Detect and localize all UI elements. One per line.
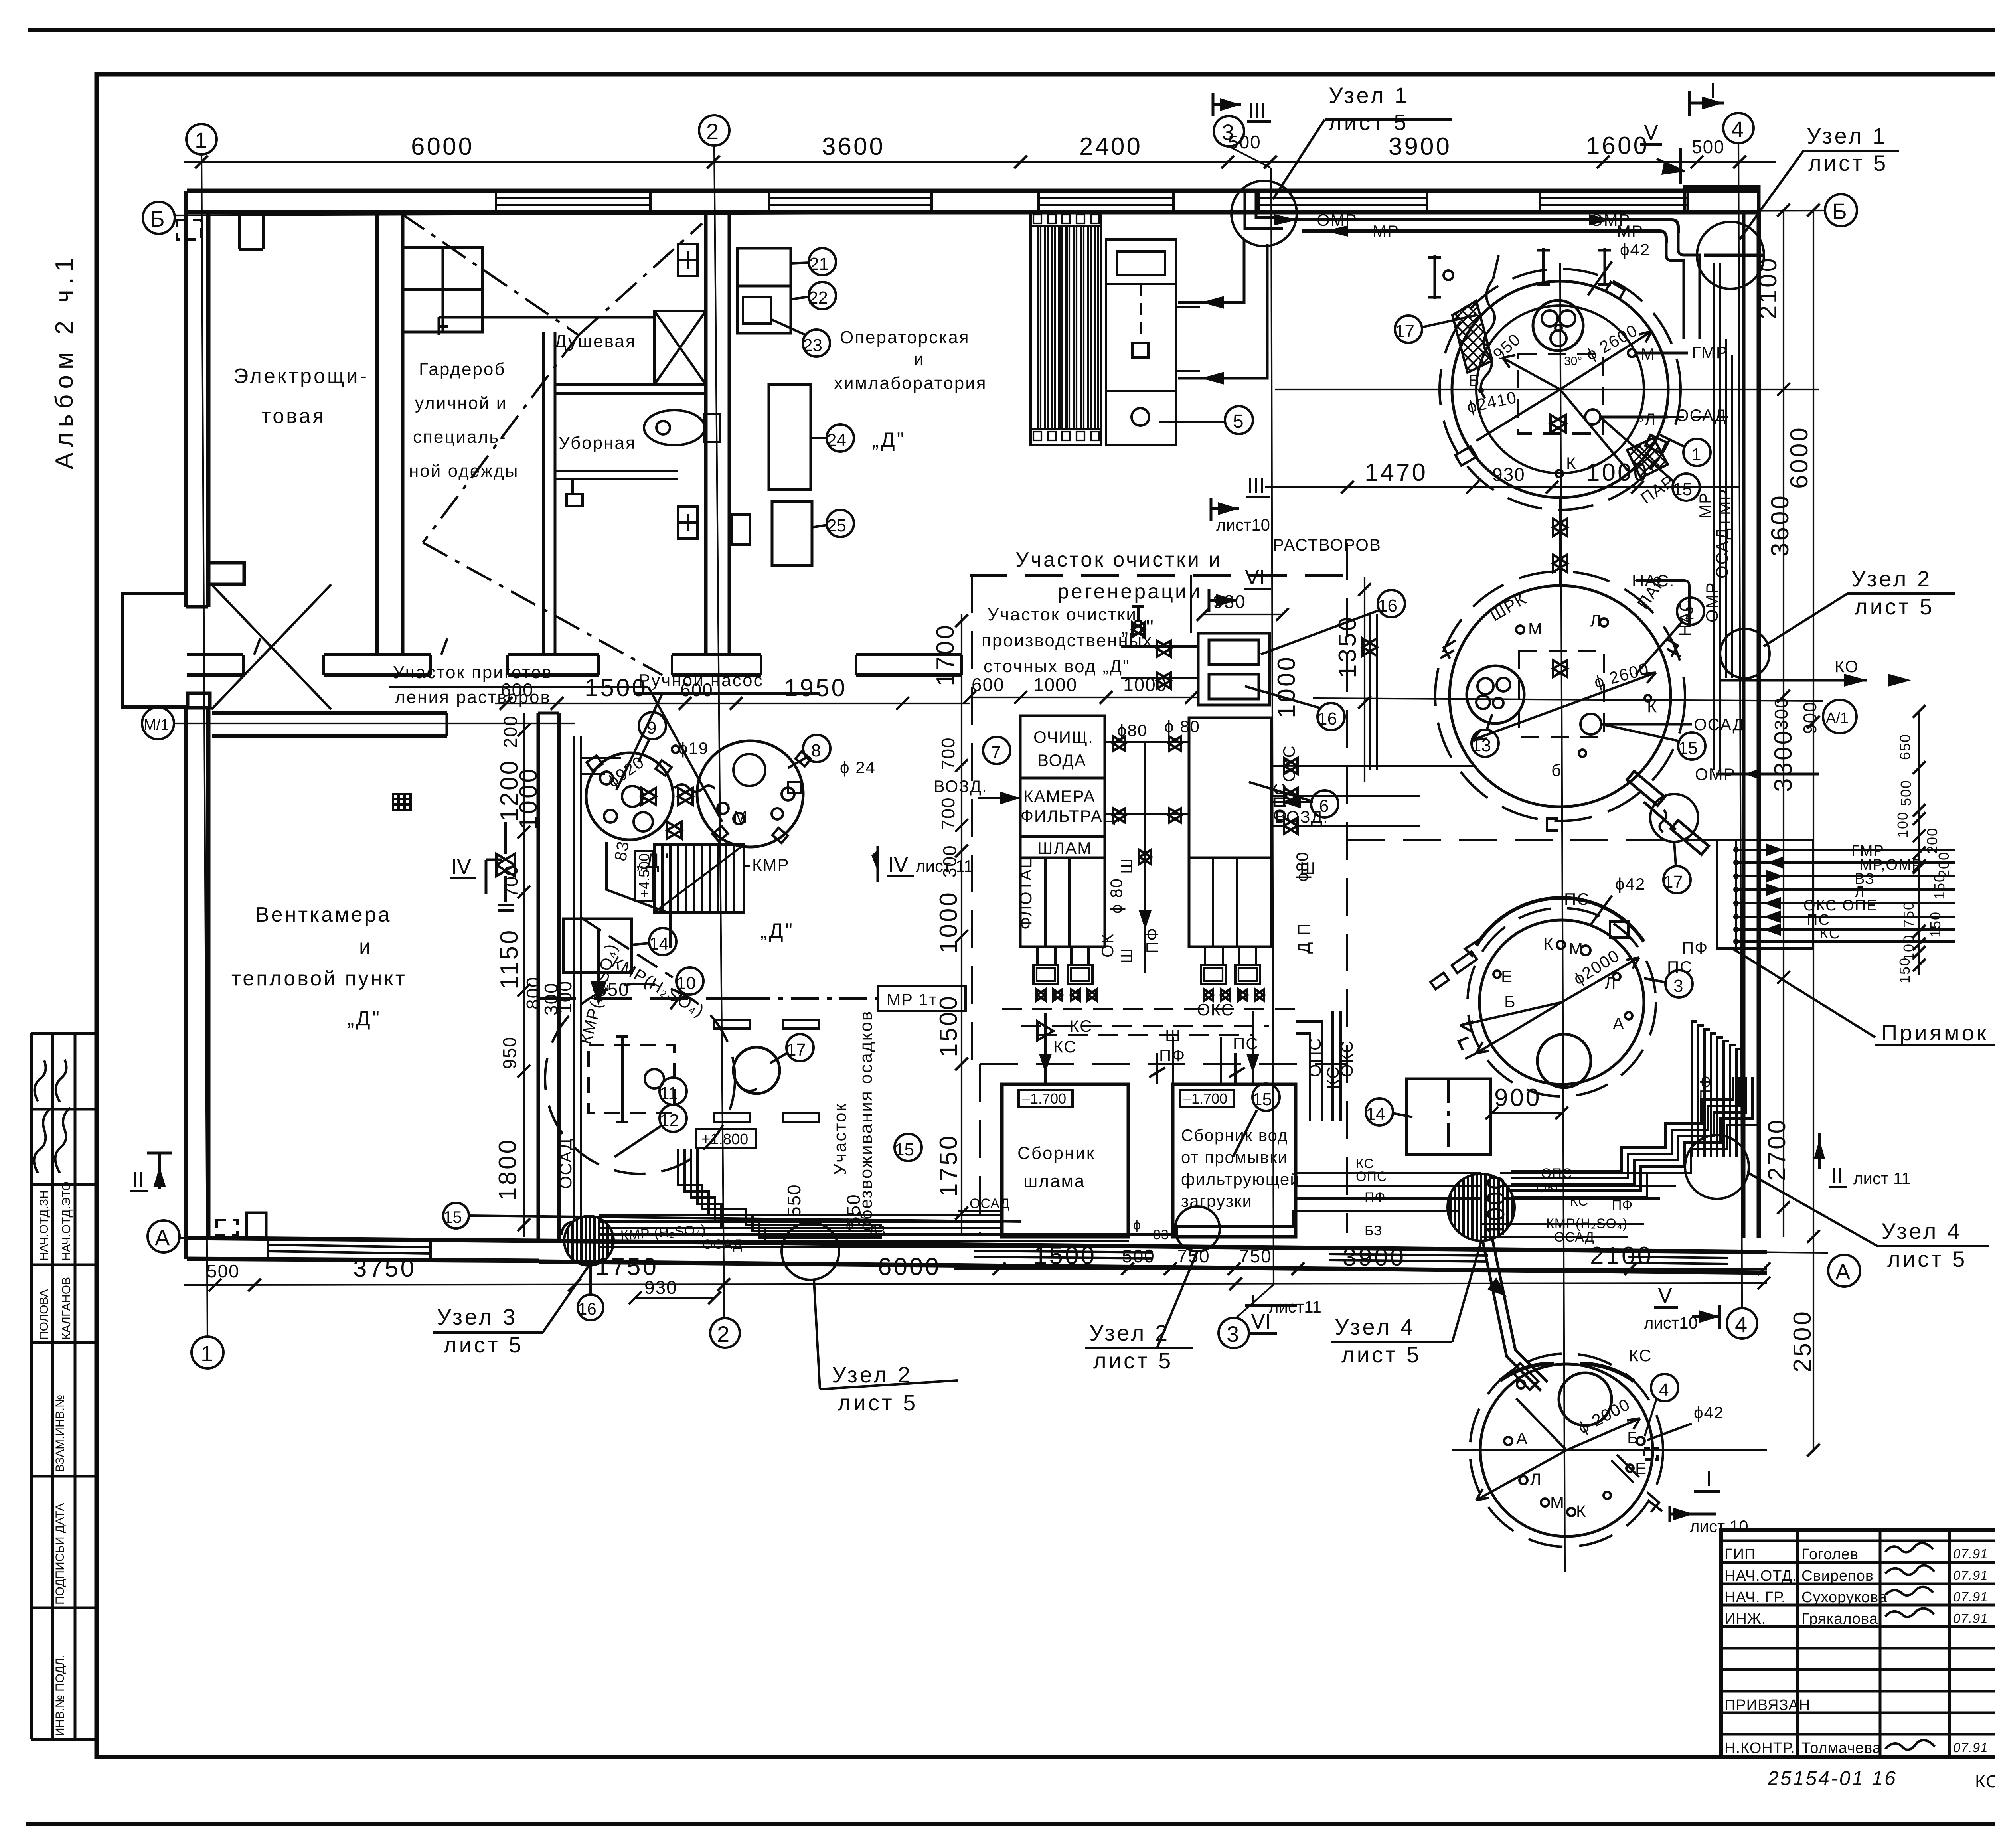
- svg-text:600: 600: [972, 674, 1005, 695]
- grid circle 2 top: [699, 115, 729, 146]
- svg-text:ϕ 24: ϕ 24: [840, 758, 876, 777]
- stamp outline: [1721, 1530, 1995, 1757]
- TITLE-BLOCK: [1721, 1530, 1995, 1812]
- stairs: [654, 845, 744, 912]
- svg-text:650: 650: [1897, 734, 1913, 760]
- pit manifold lines: [1733, 843, 1955, 944]
- right wall pipe bundle vertical: [1714, 263, 1732, 770]
- svg-text:I: I: [1710, 79, 1716, 103]
- svg-text:ϕ 2000: ϕ 2000: [1575, 1394, 1633, 1437]
- svg-text:900: 900: [1494, 1084, 1541, 1112]
- grid circle 1 top: [186, 124, 217, 154]
- svg-text:тепловой пункт: тепловой пункт: [231, 967, 407, 990]
- svg-text:15: 15: [895, 1140, 914, 1159]
- callout 3 t3: [1665, 970, 1693, 997]
- tank 2 nozzles lower right: [1627, 771, 1709, 855]
- svg-text:Ш: Ш: [1117, 858, 1136, 874]
- axis B horizontal: [175, 211, 1825, 215]
- sink top: [678, 244, 697, 276]
- uzel2 right circle: [1720, 629, 1770, 678]
- EQUIPMENT: [545, 211, 1995, 1547]
- svg-text:3300: 3300: [1770, 729, 1797, 792]
- svg-text:„Д": „Д": [760, 919, 794, 942]
- west wall stub above M1: [188, 693, 210, 708]
- svg-text:Л: Л: [1605, 973, 1617, 992]
- dushevaya north partition: [439, 316, 654, 319]
- svg-text:–1.700: –1.700: [1022, 1090, 1066, 1107]
- outer top cut line: [28, 28, 1995, 32]
- svg-text:ПФ: ПФ: [1143, 927, 1161, 954]
- uzel1 right circle: [1697, 222, 1764, 289]
- svg-text:НАЧ. ГР.: НАЧ. ГР.: [1724, 1589, 1786, 1606]
- tank 1 valve: [1551, 415, 1566, 432]
- tank1-tank2 pipe with valves: [1553, 497, 1567, 586]
- svg-text:сточных вод „Д": сточных вод „Д": [984, 657, 1130, 676]
- wavy link pumps: [674, 784, 715, 792]
- svg-text:Ш: Ш: [1117, 948, 1136, 964]
- svg-text:БЗ: БЗ: [1365, 1223, 1382, 1238]
- svg-text:ϕ42: ϕ42: [1615, 875, 1645, 893]
- svg-text:ГМР: ГМР: [1715, 488, 1734, 525]
- svg-text:1150: 1150: [496, 928, 523, 989]
- svg-text:930: 930: [644, 1277, 678, 1298]
- svg-text:лист 5: лист 5: [1855, 594, 1934, 619]
- svg-text:лист 5: лист 5: [1808, 150, 1888, 176]
- svg-text:К: К: [1576, 1502, 1586, 1520]
- svg-text:1: 1: [195, 128, 207, 153]
- svg-text:ϕ 80: ϕ 80: [1164, 717, 1200, 736]
- svg-text:А: А: [1613, 1014, 1625, 1033]
- pipes drop into right wall corner: [1678, 233, 1700, 339]
- svg-text:НАЧ.ОТД.: НАЧ.ОТД.: [1724, 1568, 1797, 1584]
- left vertical pipes: [562, 736, 581, 1235]
- signature scribbles rotated: [34, 1109, 50, 1173]
- bottom dimension row A: [954, 1268, 1767, 1270]
- staircase bundle right big: [1511, 1077, 1759, 1197]
- cabinet 25: [772, 501, 812, 565]
- west exterior wall upper: [184, 191, 188, 607]
- svg-text:лист 5: лист 5: [1341, 1342, 1421, 1367]
- svg-text:83: 83: [611, 839, 633, 862]
- callout 11: [660, 1078, 687, 1105]
- north-east corner pier: [1685, 187, 1759, 212]
- svg-text:ПФ: ПФ: [1612, 1198, 1633, 1213]
- sbornik shlama box: [1002, 1084, 1128, 1237]
- sbornik inlet pipes: [1037, 1011, 1259, 1084]
- svg-text:лист 11: лист 11: [1853, 1169, 1910, 1188]
- tank 2 valve: [1553, 660, 1567, 677]
- svg-text:Б: Б: [150, 206, 165, 231]
- unit 5 ion battery: [1031, 211, 1101, 445]
- svg-text:100: 100: [1900, 934, 1917, 961]
- svg-text:4: 4: [1735, 1312, 1747, 1337]
- svg-text:Б: Б: [1832, 199, 1847, 224]
- unit6 under pumps: [1201, 947, 1260, 984]
- callout 7: [983, 737, 1010, 764]
- svg-text:300: 300: [1771, 697, 1792, 730]
- grid circle B left: [143, 202, 175, 234]
- svg-text:регенерации: регенерации: [1057, 580, 1202, 603]
- svg-text:6000: 6000: [1786, 426, 1813, 489]
- SIDE-TABLE: [31, 1033, 97, 1739]
- svg-text:ОКС: ОКС: [1197, 1000, 1234, 1019]
- svg-text:ϕ19: ϕ19: [678, 739, 709, 758]
- uzel3 circle at wall: [564, 1216, 614, 1266]
- svg-text:и: и: [359, 935, 373, 958]
- pipes sbornik right L-bundle: [1296, 1011, 1341, 1121]
- interior wall 2 (garderob/ubornaya): [542, 332, 545, 655]
- interior wall 3 (ubornaya/operatorskaya): [704, 212, 708, 655]
- axis-1 wall pier stubs top: [177, 212, 263, 249]
- tank 1 body: [1440, 269, 1681, 510]
- svg-text:„Д": „Д": [347, 1007, 381, 1030]
- grid circle B right: [1825, 194, 1857, 226]
- PIPING: [496, 83, 1955, 1391]
- hall west wall: [537, 713, 540, 1241]
- svg-text:ОПС: ОПС: [1306, 1038, 1324, 1077]
- rastvorov feed pipes: [1121, 575, 1198, 689]
- svg-text:500: 500: [1122, 1246, 1155, 1266]
- callout 16 mid: [1317, 703, 1345, 730]
- svg-text:ПОДПИСЬИ ДАТА: ПОДПИСЬИ ДАТА: [53, 1503, 67, 1605]
- tank 2 dashed pit: [1519, 651, 1604, 737]
- svg-text:Гоголев: Гоголев: [1801, 1546, 1859, 1563]
- north exterior wall inner line: [187, 210, 1759, 215]
- svg-text:ГМР: ГМР: [1692, 343, 1728, 362]
- svg-text:30°: 30°: [1564, 355, 1582, 368]
- tank 4 diag line: [1516, 1398, 1566, 1450]
- dushevaya/ubornaya divider: [555, 383, 706, 386]
- svg-text:А: А: [155, 1225, 170, 1250]
- svg-text:Узел 3: Узел 3: [437, 1304, 518, 1329]
- svg-text:3600: 3600: [1766, 494, 1794, 557]
- dashed collector lines under units: [1002, 1009, 1296, 1035]
- svg-text:2: 2: [717, 1321, 729, 1347]
- svg-text:IV: IV: [451, 855, 471, 879]
- svg-text:4: 4: [1659, 1380, 1669, 1400]
- svg-text:25: 25: [827, 516, 846, 535]
- staff names: [1724, 1546, 1988, 1757]
- axis 4 vertical: [1738, 143, 1742, 1309]
- svg-text:Участок приготов-: Участок приготов-: [393, 663, 560, 682]
- svg-text:150: 150: [1927, 911, 1944, 938]
- svg-text:4: 4: [1731, 116, 1744, 142]
- mid dim row 1470-930-1000: [1265, 486, 1740, 488]
- tanks center vertical: [1560, 263, 1565, 1572]
- section V top: [1640, 120, 1685, 184]
- bottom long pipe runs: [598, 1173, 1692, 1247]
- unit7 under pumps: [1033, 947, 1092, 984]
- svg-text:Душевая: Душевая: [555, 332, 636, 351]
- WALLS: [122, 187, 1767, 1273]
- svg-text:А: А: [1516, 1429, 1528, 1448]
- svg-text:83: 83: [1153, 1227, 1169, 1242]
- callout 2 t2: [1677, 598, 1704, 625]
- svg-text:ФИЛЬТРАЦ.: ФИЛЬТРАЦ.: [1021, 807, 1122, 825]
- svg-text:24: 24: [827, 430, 846, 450]
- svg-text:шлама: шлама: [1023, 1171, 1085, 1191]
- callout 24: [827, 424, 854, 452]
- svg-text:1: 1: [201, 1341, 213, 1366]
- sbornik vod box: [1173, 1084, 1296, 1237]
- svg-text:ϕ: ϕ: [1133, 1218, 1141, 1233]
- south door stub near axis A: [247, 1213, 266, 1238]
- manifold small valves under units: [1037, 989, 1264, 1001]
- callout 13: [1472, 730, 1499, 757]
- svg-text:ϕ80: ϕ80: [1117, 721, 1148, 740]
- section III top: [1213, 93, 1271, 122]
- vertical bundle with hooks: [1692, 1021, 1742, 1157]
- svg-text:Толмачева: Толмачева: [1801, 1740, 1881, 1757]
- svg-text:Д: Д: [1294, 942, 1313, 954]
- callout 25: [827, 510, 854, 537]
- tank 2 diameter arrow: [1472, 673, 1656, 740]
- callout 5: [1225, 406, 1253, 434]
- callout 15 left wall: [443, 1203, 469, 1228]
- svg-text:МР: МР: [1617, 222, 1643, 241]
- svg-text:М: М: [1528, 619, 1543, 638]
- svg-text:лист 5: лист 5: [1329, 110, 1408, 135]
- svg-text:Ш: Ш: [1300, 859, 1316, 877]
- svg-text:V: V: [1658, 1283, 1672, 1307]
- svg-text:6000: 6000: [411, 133, 474, 160]
- tank 14 box right: [1406, 1079, 1491, 1155]
- grid circle M1 left: [142, 707, 174, 739]
- axis M1 horizontal: [174, 723, 575, 724]
- svg-text:„Д": „Д": [872, 428, 906, 452]
- svg-text:ИНВ.№ ПОДЛ.: ИНВ.№ ПОДЛ.: [53, 1655, 67, 1736]
- tank 3 arrows: [1460, 958, 1639, 1053]
- KMP line from left: [581, 918, 673, 977]
- KO arrow right: [1720, 679, 1867, 682]
- svg-text:930: 930: [1492, 464, 1525, 485]
- unit 5 leader: [1159, 421, 1225, 423]
- svg-text:А/1: А/1: [1826, 710, 1849, 727]
- svg-text:16: 16: [578, 1299, 597, 1318]
- callout 17 top: [1395, 316, 1422, 343]
- axis T tank row horizontal: [1275, 389, 1819, 390]
- svg-text:900: 900: [1799, 701, 1820, 734]
- section VI bottom: [1245, 1295, 1321, 1333]
- callout 9: [639, 712, 666, 739]
- south exterior wall left segment: [187, 1238, 539, 1241]
- svg-text:химлаборатория: химлаборатория: [834, 373, 987, 393]
- cabinet 24: [769, 385, 811, 490]
- unit 7 flotation: [1020, 716, 1105, 947]
- svg-text:Л: Л: [1530, 1470, 1542, 1489]
- callout 4 tank4: [1651, 1374, 1678, 1401]
- svg-text:ФЛОТАЦ: ФЛОТАЦ: [1016, 855, 1035, 930]
- pit manifold box: [1717, 840, 1813, 948]
- floor drain ventkamera: [393, 794, 411, 810]
- tank 1 hatch patch lower: [1627, 438, 1668, 478]
- svg-text:ОМР: ОМР: [1703, 582, 1721, 622]
- pump 9 circle: [586, 753, 673, 840]
- svg-text:КАМЕРА: КАМЕРА: [1023, 787, 1096, 806]
- svg-text:ОК: ОК: [1098, 933, 1117, 958]
- svg-text:ОПС: ОПС: [1356, 1169, 1387, 1184]
- svg-text:Сухорукова: Сухорукова: [1801, 1589, 1887, 1606]
- svg-text:2: 2: [1685, 604, 1694, 623]
- tank 2 body: [1435, 571, 1685, 821]
- svg-text:К: К: [1566, 454, 1576, 472]
- grid circle 4 bottom: [1727, 1308, 1757, 1339]
- left internal dim chain: [523, 713, 525, 1237]
- svg-text:8: 8: [811, 741, 821, 760]
- svg-text:150: 150: [1896, 957, 1913, 983]
- svg-text:9: 9: [647, 718, 656, 738]
- tank 1 rim flanges: [1455, 282, 1666, 466]
- svg-text:1750: 1750: [935, 1134, 962, 1197]
- section VI left: [1209, 565, 1271, 612]
- callout 22: [809, 282, 836, 309]
- svg-text:ϕ 2600: ϕ 2600: [1592, 659, 1651, 692]
- ROOMS: [231, 244, 1381, 1231]
- svg-text:ОКС: ОКС: [1337, 1040, 1356, 1077]
- svg-text:лист10: лист10: [1216, 515, 1270, 534]
- NAS line tank2: [1636, 580, 1689, 626]
- svg-text:М: М: [733, 808, 748, 826]
- svg-text:I: I: [1706, 1467, 1712, 1491]
- outer bottom cut line: [26, 1822, 1995, 1826]
- svg-text:500: 500: [1898, 780, 1914, 806]
- bytovki south wall piers: [187, 638, 962, 675]
- svg-text:16: 16: [1317, 709, 1337, 729]
- bottom dimension row B: [184, 1283, 1767, 1285]
- svg-text:1470: 1470: [1365, 459, 1428, 486]
- callout 10: [676, 967, 703, 995]
- svg-text:3600: 3600: [822, 133, 885, 160]
- svg-text:специаль-: специаль-: [413, 427, 507, 447]
- svg-text:Узел 1: Узел 1: [1807, 123, 1887, 148]
- tank 2 rim brackets: [1440, 638, 1681, 831]
- callout 14 r: [1366, 1098, 1393, 1125]
- svg-text:1600: 1600: [1586, 132, 1649, 160]
- svg-text:лист 5: лист 5: [1093, 1348, 1173, 1373]
- svg-text:Узел 2: Узел 2: [1851, 566, 1932, 591]
- callout 15 t1: [1673, 474, 1700, 501]
- svg-text:Сборник вод: Сборник вод: [1181, 1126, 1288, 1145]
- svg-text:VI: VI: [1245, 565, 1265, 589]
- svg-text:и: и: [914, 349, 925, 369]
- small collector circle: [733, 1047, 780, 1094]
- staff table verticals: [1796, 1530, 1799, 1757]
- svg-text:от промывки: от промывки: [1181, 1148, 1288, 1167]
- svg-text:II: II: [132, 1168, 144, 1192]
- toilet: [644, 410, 705, 445]
- rastvorov tanks 16: [1198, 633, 1270, 705]
- svg-text:фильтрующей: фильтрующей: [1181, 1170, 1300, 1189]
- uzel4 circle bottom: [1448, 1174, 1515, 1241]
- grid circle 3 bottom: [1219, 1318, 1249, 1348]
- bottom pipe labels: [620, 1156, 1633, 1252]
- uzel4 right circle: [1685, 1135, 1749, 1199]
- svg-text:КОПИРОВАЛ: СЫРОВА, Сарес-: КОПИРОВАЛ: СЫРОВА, Сарес-: [1975, 1772, 1995, 1791]
- svg-text:КМР: КМР: [752, 855, 789, 874]
- svg-text:ϕ 80: ϕ 80: [1107, 878, 1126, 914]
- OSAD dashed tank1: [1668, 416, 1728, 418]
- svg-text:Б: Б: [1468, 371, 1480, 390]
- sink bottom: [678, 507, 697, 539]
- callout 17 l: [786, 1034, 814, 1061]
- svg-text:17: 17: [1395, 322, 1414, 341]
- svg-text:лист 10: лист 10: [1690, 1517, 1748, 1536]
- svg-text:ОЧИЩ.: ОЧИЩ.: [1033, 728, 1094, 746]
- callout 15 sb: [1252, 1084, 1280, 1111]
- staircase bundle left of sborniki: [678, 1149, 882, 1244]
- svg-text:ОСАД: ОСАД: [702, 1237, 743, 1252]
- axis A horizontal: [180, 1238, 1828, 1253]
- svg-text:1950: 1950: [784, 674, 847, 702]
- priyamok leader and label: [1732, 948, 1875, 1037]
- svg-text:ПРИВЯЗАН: ПРИВЯЗАН: [1724, 1697, 1810, 1714]
- svg-text:100: 100: [1894, 811, 1911, 838]
- svg-text:III: III: [1248, 99, 1266, 122]
- svg-text:ОСАД: ОСАД: [970, 1196, 1010, 1211]
- svg-text:◦Л: ◦Л: [1638, 410, 1656, 428]
- svg-text:07.91: 07.91: [1953, 1568, 1988, 1583]
- svg-text:Приямок 1300×300: Приямок 1300×300: [1881, 1020, 1995, 1045]
- svg-text:ВЗАМ.ИНВ.№: ВЗАМ.ИНВ.№: [53, 1395, 67, 1472]
- interior wall 1 (electroshchitovaya/garderob): [375, 212, 379, 655]
- svg-text:Н.КОНТР.: Н.КОНТР.: [1724, 1740, 1795, 1757]
- svg-text:ШЛАМ: ШЛАМ: [1037, 839, 1092, 857]
- tank1 hose squiggle: [1481, 279, 1495, 398]
- svg-text:11: 11: [660, 1084, 678, 1103]
- pit circle near tank2: [1650, 794, 1698, 842]
- svg-text:ОКС: ОКС: [1536, 1180, 1565, 1195]
- section I top: [1689, 79, 1724, 116]
- dim 900 under tank3: [1492, 1112, 1562, 1114]
- svg-text:25154-01 16: 25154-01 16: [1767, 1767, 1897, 1789]
- svg-text:500: 500: [207, 1261, 240, 1281]
- section IV left: [450, 855, 502, 894]
- grid circle 1 bottom: [192, 1337, 223, 1368]
- tank 4 manhole: [1559, 1373, 1612, 1425]
- svg-text:НАЧ.ОТД.ЗН: НАЧ.ОТД.ЗН: [38, 1190, 51, 1261]
- svg-text:ϕ42: ϕ42: [1620, 240, 1650, 259]
- dim row 600-1500-600-1950: [495, 703, 970, 704]
- uzel2 circle bottom-mid: [1175, 1206, 1220, 1251]
- svg-text:П: П: [1294, 923, 1313, 936]
- svg-text:1000: 1000: [935, 890, 962, 954]
- svg-text:21: 21: [809, 254, 829, 274]
- tank 4 body: [1470, 1354, 1663, 1547]
- section IV right: [871, 846, 973, 882]
- svg-text:13: 13: [1472, 736, 1491, 755]
- +1.800 label: [696, 1129, 756, 1148]
- svg-text:К: К: [1647, 697, 1657, 716]
- svg-text:Ручной насос: Ручной насос: [638, 671, 764, 690]
- svg-text:Сборник: Сборник: [1017, 1143, 1095, 1163]
- north wall window mullions: [496, 191, 1688, 212]
- svg-text:Участок очистки и: Участок очистки и: [1015, 548, 1222, 571]
- svg-text:17: 17: [1663, 872, 1683, 892]
- axis M1 wall: [212, 711, 447, 715]
- grid circle A right: [1828, 1255, 1860, 1287]
- svg-text:ϕ42: ϕ42: [1694, 1403, 1724, 1422]
- CALLOUTS: [130, 79, 1989, 1536]
- svg-text:ШРК: ШРК: [1487, 589, 1529, 625]
- flange pair symbols left of tank1: [1428, 248, 1611, 299]
- svg-text:VI: VI: [1251, 1309, 1271, 1333]
- svg-text:500: 500: [1228, 132, 1261, 152]
- uzel1 mid circle: [1231, 181, 1297, 246]
- arrow down big left: [597, 930, 600, 993]
- svg-text:14: 14: [649, 934, 669, 954]
- svg-text:700: 700: [938, 737, 958, 770]
- svg-text:Участок очистки: Участок очистки: [988, 605, 1137, 624]
